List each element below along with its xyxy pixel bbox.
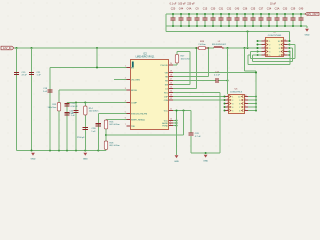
node junction (244.5,48): [244, 47, 246, 49]
capacitor C33: [282, 8, 287, 27]
capacitor C31: [218, 8, 223, 27]
wire return line y31.5: [166, 32, 290, 42]
wire vertical x247.5: [247, 32, 249, 49]
svg-text:20: 20: [170, 63, 172, 65]
wire row y90 to IC: [59, 89, 127, 91]
svg-text:6: 6: [239, 110, 240, 112]
svg-text:18: 18: [170, 75, 172, 77]
wire R13 top lead: [58, 90, 60, 103]
capacitor C35: [250, 8, 255, 27]
capacitor C23: [77, 127, 88, 139]
svg-text:100 kOhm: 100 kOhm: [181, 58, 191, 60]
svg-text:8: 8: [245, 102, 246, 104]
node junction (247.5,48): [247, 47, 249, 49]
value label 0.1 uF: [170, 2, 177, 5]
capacitor C4A: [186, 8, 191, 27]
node junction (76,102.5): [75, 102, 77, 104]
svg-text:C28: C28: [195, 133, 200, 135]
svg-text:UVLO/EN: UVLO/EN: [131, 79, 140, 81]
capacitor C36: [242, 8, 247, 27]
connector CON1 body: [266, 38, 284, 57]
connector U5 right pins: [238, 95, 257, 112]
svg-text:4: 4: [227, 106, 228, 108]
svg-text:7: 7: [245, 106, 246, 108]
svg-text:3: 3: [264, 47, 265, 49]
wire column R14: [84, 103, 86, 151]
svg-text:R27: R27: [181, 56, 186, 58]
svg-text:R16: R16: [110, 121, 115, 123]
wire row y80.5 left: [173, 80, 215, 82]
svg-text:MODE: MODE: [131, 90, 138, 92]
svg-text:IC2: IC2: [143, 53, 147, 55]
svg-text:1: 1: [264, 40, 265, 42]
wire row y80.5 right: [219, 80, 228, 82]
svg-text:56 kOhm: 56 kOhm: [48, 107, 57, 109]
svg-text:C3A: C3A: [275, 8, 280, 11]
resistor R16: [104, 120, 120, 129]
svg-text:C15: C15: [203, 8, 208, 11]
svg-text:CSN: CSN: [164, 100, 169, 102]
svg-text:C34: C34: [267, 8, 272, 11]
svg-text:3: 3: [269, 48, 270, 50]
svg-text:C4A: C4A: [187, 8, 192, 11]
svg-text:4: 4: [125, 101, 126, 103]
svg-text:11: 11: [170, 109, 172, 111]
wire vertical x176.5: [176, 111, 178, 156]
svg-text:1: 1: [227, 95, 228, 97]
capacitor C21: [29, 72, 41, 77]
svg-text:1: 1: [125, 66, 126, 68]
svg-text:SRL5028-100Y: SRL5028-100Y: [212, 44, 227, 46]
svg-text:7: 7: [239, 107, 240, 109]
capacitor C20: [170, 8, 175, 27]
wire column x31.5: [31, 48, 33, 151]
wire L-route to U5 col: [245, 48, 257, 71]
wire feedback row y135: [106, 134, 184, 136]
resistor R28: [196, 41, 208, 50]
svg-text:6: 6: [284, 54, 285, 56]
wire row y79.5 stub: [114, 79, 127, 81]
wire bottom right ground run: [191, 152, 220, 154]
wire bottom ground rail: [17, 150, 107, 152]
svg-text:47 uF: 47 uF: [22, 75, 28, 77]
node bus junction x31.5: [31, 47, 33, 49]
svg-text:C30: C30: [211, 8, 216, 11]
capacitor C17: [214, 72, 221, 83]
wire bus to GND drop: [306, 26, 308, 28]
capacitor C30: [210, 8, 215, 27]
svg-text:8: 8: [284, 47, 285, 49]
wire row y76.5: [173, 76, 208, 78]
svg-text:1 nF: 1 nF: [69, 113, 74, 115]
svg-text:7: 7: [279, 51, 280, 53]
svg-text:C20: C20: [171, 8, 176, 11]
net label 12V_IN: [1, 46, 14, 50]
svg-text:1: 1: [232, 96, 233, 98]
svg-text:U5: U5: [235, 89, 239, 91]
wire row y72.5 long: [173, 72, 256, 74]
svg-text:CSP: CSP: [164, 96, 169, 98]
label U5 part: [230, 92, 243, 94]
wire vertical x227.5: [227, 48, 229, 94]
svg-text:GND: GND: [174, 161, 179, 163]
wire vertical x97 bus to row: [96, 48, 98, 68]
label IC2 part number: [136, 56, 155, 58]
wire C28 column: [190, 111, 192, 154]
node junction pins cluster: [176, 120, 178, 127]
svg-text:R14: R14: [89, 108, 94, 110]
svg-text:8: 8: [239, 103, 240, 105]
svg-text:5: 5: [227, 109, 228, 111]
svg-text:5: 5: [269, 55, 270, 57]
wire R18 bottom: [105, 150, 107, 151]
svg-text:4: 4: [232, 107, 233, 109]
wire row y67.5 to IC pin 1: [50, 67, 127, 69]
wire VCC pin run: [173, 120, 177, 122]
node junction (205.6,153): [205, 152, 207, 154]
svg-text:SYNC/SCTRL/FM: SYNC/SCTRL/FM: [131, 113, 147, 115]
capacitor C3A: [274, 8, 279, 27]
svg-text:R18: R18: [110, 142, 115, 144]
svg-text:12: 12: [170, 98, 172, 100]
wire left vertical of capacitor bank: [165, 14, 167, 32]
wire vertical x196.3: [195, 48, 197, 89]
svg-text:100 kOhm: 100 kOhm: [89, 111, 99, 113]
connector CON1 left pins: [257, 40, 271, 57]
svg-text:VCC: VCC: [164, 110, 169, 112]
wire column C24: [75, 103, 77, 151]
capacitor C44: [178, 8, 183, 27]
wire row y84.5: [173, 84, 190, 86]
wire vertical x183.5: [183, 111, 185, 136]
svg-text:C18: C18: [43, 88, 48, 90]
svg-text:0.1 uF: 0.1 uF: [214, 75, 221, 77]
wire bottom bus of capacitor bank: [166, 25, 307, 27]
svg-text:C32: C32: [227, 8, 232, 11]
svg-text:5: 5: [264, 54, 265, 56]
capacitor C24: [69, 110, 79, 115]
capacitor C28: [188, 132, 201, 138]
connector CON1 right pins: [278, 40, 291, 57]
capacitor C1B: [64, 103, 78, 108]
label IC2: [143, 53, 147, 55]
svg-text:68.1 kOhm: 68.1 kOhm: [110, 145, 120, 147]
svg-text:GND: GND: [203, 161, 208, 163]
svg-text:C44: C44: [179, 8, 184, 11]
svg-text:C37: C37: [259, 8, 264, 11]
op-amp IC2 body: [131, 60, 169, 130]
IC2 left pins: [125, 66, 148, 128]
wire bus L2 to connector: [224, 47, 258, 49]
svg-text:10: 10: [238, 96, 240, 98]
svg-text:10: 10: [245, 95, 247, 97]
wire R27 bottom lead: [176, 63, 178, 65]
svg-text:7: 7: [284, 50, 285, 52]
svg-text:LO: LO: [165, 88, 168, 90]
wire column x50: [49, 68, 51, 151]
svg-text:3: 3: [125, 88, 126, 90]
wire R16 top: [105, 120, 107, 122]
svg-text:9: 9: [239, 100, 240, 102]
wire R13 bottom: [58, 111, 60, 151]
svg-text:14: 14: [170, 91, 172, 93]
svg-text:84.5 kOhm: 84.5 kOhm: [110, 124, 120, 126]
svg-text:HO: HO: [165, 80, 168, 82]
svg-text:GND: GND: [305, 35, 310, 37]
svg-text:6: 6: [245, 109, 246, 111]
connector U5 body: [229, 95, 245, 114]
svg-text:0.56 uF: 0.56 uF: [71, 106, 79, 108]
svg-text:C31: C31: [219, 8, 224, 11]
connector U5 left pins: [224, 95, 234, 112]
svg-text:13: 13: [170, 95, 172, 97]
wire row y119.5 to IC: [106, 119, 127, 121]
wire row y100 to U5: [173, 99, 225, 101]
capacitor C32: [226, 8, 231, 27]
svg-text:2700 pF: 2700 pF: [77, 137, 85, 139]
wire vertical x256: [255, 71, 257, 111]
ground GND (rail mid): [83, 153, 88, 161]
svg-text:L2: L2: [218, 41, 221, 43]
svg-text:1 uF: 1 uF: [43, 91, 48, 93]
svg-text:1 uF: 1 uF: [37, 75, 42, 77]
label U5: [235, 89, 239, 91]
svg-text:10: 10: [284, 40, 286, 42]
svg-text:2: 2: [269, 44, 270, 46]
svg-text:C19: C19: [22, 72, 27, 74]
svg-text:6: 6: [125, 118, 126, 120]
node bus junction x97: [96, 47, 98, 49]
svg-text:CON3-TH/LK: CON3-TH/LK: [230, 92, 243, 94]
svg-text:LM5145RGYR-Q1: LM5145RGYR-Q1: [136, 56, 155, 58]
svg-text:220 uF: 220 uF: [187, 2, 195, 5]
wire PGOOD row: [173, 64, 177, 66]
svg-text:5: 5: [232, 110, 233, 112]
node junction (85.3,102.5): [84, 102, 86, 104]
svg-text:1: 1: [269, 41, 270, 43]
node junction (196.3,48): [195, 47, 197, 49]
wire vertical x220: [219, 93, 221, 154]
svg-text:5: 5: [125, 112, 126, 114]
svg-text:4: 4: [269, 51, 270, 53]
svg-text:2: 2: [264, 43, 265, 45]
capacitor C2B: [91, 123, 101, 133]
node bus junction x16.5: [16, 47, 18, 49]
node junction (97,67.5): [96, 67, 98, 69]
node rail junction x31.5: [31, 150, 33, 152]
value label 100 uF: [178, 2, 186, 5]
wire PGND pin run: [173, 125, 177, 127]
node rail junction x76: [75, 150, 77, 152]
svg-text:2: 2: [232, 100, 233, 102]
svg-text:6: 6: [279, 55, 280, 57]
ground GND (C28): [203, 155, 208, 163]
capacitor C22: [64, 112, 75, 117]
capacitor C43: [234, 8, 239, 27]
wire column x16.5: [16, 48, 18, 151]
IC2 right pins: [161, 63, 173, 127]
wire row y88.5: [173, 88, 196, 90]
svg-text:100 uF: 100 uF: [178, 2, 186, 5]
svg-text:10: 10: [278, 41, 280, 43]
net label 12V_OUT: [305, 12, 319, 16]
svg-text:4: 4: [264, 50, 265, 52]
resistor R13: [48, 103, 61, 112]
node junction (208.3,48): [207, 47, 209, 49]
svg-text:10 uF: 10 uF: [270, 2, 277, 5]
svg-text:16: 16: [170, 83, 172, 85]
capacitor C15: [202, 8, 207, 27]
wire column C1B: [66, 103, 68, 151]
wire top bus of capacitor bank: [166, 13, 305, 15]
svg-text:2: 2: [227, 99, 228, 101]
svg-text:VIN: VIN: [165, 72, 169, 74]
label X1 ref: [273, 32, 277, 34]
ground GND (cap bank): [305, 29, 310, 37]
capacitor C9: [194, 8, 199, 27]
svg-text:4.7 uF: 4.7 uF: [195, 136, 202, 138]
svg-text:PGOOD: PGOOD: [161, 65, 169, 67]
svg-text:0.1 uF: 0.1 uF: [170, 2, 177, 5]
svg-text:8: 8: [279, 48, 280, 50]
svg-text:C35: C35: [251, 8, 256, 11]
svg-text:15: 15: [170, 87, 172, 89]
node junction (257.5,48): [257, 47, 259, 49]
svg-text:GND: GND: [83, 159, 88, 161]
ground GND (rail left): [31, 153, 36, 161]
svg-text:8: 8: [170, 124, 171, 126]
resistor R14: [84, 106, 99, 115]
svg-text:SW: SW: [165, 84, 168, 86]
resistor R18: [104, 141, 120, 150]
capacitor C19: [14, 72, 28, 77]
svg-text:12V_OUT: 12V_OUT: [307, 13, 319, 16]
value label 220 uF: [187, 2, 195, 5]
svg-text:GND: GND: [31, 159, 36, 161]
wire bus R28 to L2: [208, 47, 214, 49]
svg-text:2: 2: [125, 78, 126, 80]
svg-text:C2B: C2B: [91, 128, 96, 130]
wire vertical x208.3: [207, 48, 209, 77]
wire R16-R18 junction: [105, 129, 107, 141]
wire U-route 3: [248, 52, 290, 65]
svg-text:R13: R13: [52, 104, 57, 106]
svg-text:C43: C43: [235, 8, 240, 11]
label CON1: [268, 35, 282, 37]
svg-text:1 uF: 1 uF: [91, 131, 96, 133]
node rail junction x50: [49, 150, 51, 152]
svg-text:COMP: COMP: [131, 102, 138, 104]
svg-text:7: 7: [125, 124, 126, 126]
svg-text:2 kOhm: 2 kOhm: [198, 44, 206, 46]
node rail junction x67: [66, 150, 68, 152]
value label 10 uF: [270, 2, 277, 5]
node junction (176.5,110.5): [176, 110, 185, 112]
svg-text:C36: C36: [243, 8, 248, 11]
svg-text:3: 3: [232, 103, 233, 105]
wire main 12V bus: [14, 47, 196, 49]
svg-text:C1B: C1B: [71, 103, 76, 105]
svg-text:17: 17: [170, 79, 172, 81]
svg-text:TRK: TRK: [131, 126, 136, 128]
wire R27 top lead: [176, 52, 178, 55]
svg-text:9: 9: [279, 44, 280, 46]
svg-text:PGND: PGND: [162, 125, 168, 127]
capacitor C40: [298, 8, 303, 27]
node junction (227.5,48): [227, 47, 229, 49]
resistor R27: [175, 55, 190, 64]
wire AGND pin run: [173, 122, 177, 124]
svg-text:C39: C39: [291, 8, 296, 11]
svg-text:C9: C9: [195, 8, 199, 11]
node rail junction x98.3: [97, 150, 99, 152]
svg-text:C33: C33: [283, 8, 288, 11]
capacitor C18: [43, 88, 53, 93]
wire U-route 1: [251, 45, 296, 59]
node rail junction x85.3: [84, 150, 86, 152]
svg-text:CON-7975609: CON-7975609: [268, 35, 282, 37]
wire row y110.5: [173, 110, 191, 112]
svg-text:9: 9: [245, 99, 246, 101]
capacitor C34: [266, 8, 271, 27]
inductor L2: [212, 41, 227, 48]
svg-text:9: 9: [284, 43, 285, 45]
svg-text:C40: C40: [299, 8, 304, 11]
node junction (247.5,31.5): [247, 31, 249, 33]
capacitor C39: [290, 8, 295, 27]
svg-text:SREF/_RES(U): SREF/_RES(U): [131, 119, 145, 121]
node junction (227.5,80.5): [227, 80, 229, 82]
svg-text:3: 3: [227, 102, 228, 104]
wire vertical x190: [189, 52, 191, 85]
wire row y102.5 to IC: [67, 102, 127, 104]
wire column x98.3: [97, 114, 99, 151]
wire row y96.5 to U5: [173, 96, 225, 98]
svg-text:R28: R28: [200, 41, 205, 43]
svg-text:12V_IN: 12V_IN: [3, 47, 12, 50]
svg-text:19: 19: [170, 71, 172, 73]
wire row y113.5 to IC: [98, 113, 126, 115]
wire y51.5 run: [177, 51, 190, 53]
svg-text:1 uF: 1 uF: [71, 115, 76, 117]
node junction (256,72.5): [255, 72, 257, 74]
node rail junction x59: [58, 150, 60, 152]
wire row y92.5: [173, 92, 220, 94]
ground GND (below IC): [174, 155, 179, 163]
capacitor C37: [258, 8, 263, 27]
wire U-route 2: [253, 48, 293, 62]
svg-text:C21: C21: [37, 72, 42, 74]
